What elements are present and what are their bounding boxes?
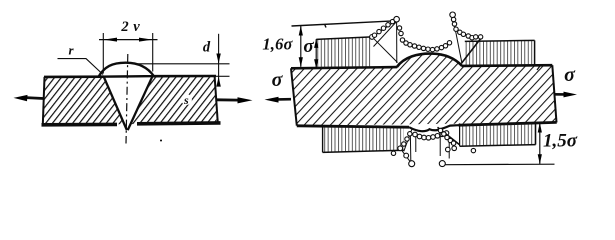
dimension 2v — [99, 33, 158, 74]
dimension d — [134, 34, 230, 87]
plate top edge right — [462, 64, 553, 67]
plate hatched body with cap — [291, 54, 557, 126]
1.5 sigma level line — [445, 163, 554, 166]
dim 1,5 sigma — [538, 123, 542, 165]
bottom-right peak beads — [438, 128, 475, 166]
label s — [181, 93, 192, 107]
svg-text:d: d — [203, 40, 211, 56]
top-right stress peak skeleton — [453, 18, 482, 64]
weld cap dome — [99, 63, 154, 77]
top-right peak beads — [450, 12, 483, 40]
svg-text:s: s — [183, 93, 189, 107]
plate bottom edge left — [297, 126, 409, 127]
svg-text:σ: σ — [564, 64, 576, 86]
svg-text:σ: σ — [303, 36, 314, 57]
bottom-left stress peak skeleton — [400, 129, 416, 164]
top-left peak beads — [370, 16, 400, 39]
label r with leader — [58, 43, 104, 75]
tension arrow right — [217, 97, 253, 103]
weld V groove (white) — [103, 75, 154, 131]
top-right sigma block — [465, 40, 535, 66]
svg-text:2: 2 — [120, 19, 128, 35]
weld V outline left — [104, 76, 127, 130]
speck dots — [160, 140, 162, 142]
root bead row — [413, 131, 449, 140]
beads over cap — [397, 26, 451, 52]
bottom-left peak beads — [391, 132, 414, 167]
top-left stress peak skeleton — [372, 20, 397, 63]
plate bottom edge right — [137, 121, 221, 126]
plate left edge — [291, 68, 297, 125]
svg-text:1,6σ: 1,6σ — [262, 34, 293, 53]
stray tick near right block — [537, 65, 541, 71]
plate top edge left — [44, 75, 104, 78]
dim sigma top — [314, 39, 318, 68]
plate top edge left — [291, 67, 397, 68]
plate top edge right — [152, 75, 216, 78]
bottom-left sigma block — [323, 126, 404, 152]
svg-text:σ: σ — [272, 69, 284, 91]
plate body hatched — [43, 76, 217, 125]
bottom-right sigma block — [460, 123, 536, 146]
stray apostrophe — [325, 24, 327, 28]
svg-text:1,5σ: 1,5σ — [543, 130, 578, 151]
svg-text:v: v — [133, 19, 140, 35]
plate right edge — [215, 76, 218, 123]
sigma arrow left — [265, 69, 292, 103]
plate bottom edge right — [459, 122, 557, 125]
centerline dash-dot — [126, 54, 128, 144]
sigma arrow right — [554, 64, 577, 97]
bottom-right stress peak skeleton — [438, 127, 460, 158]
weld cap top — [397, 54, 462, 68]
tension arrow left — [14, 95, 44, 101]
plate left edge — [43, 77, 45, 125]
plate right edge — [552, 65, 556, 122]
plate bottom edge left — [42, 123, 118, 127]
1.6 sigma level line — [292, 21, 397, 26]
weld V outline right — [128, 76, 153, 130]
dim 1,6 sigma — [299, 26, 303, 67]
top-left sigma block — [316, 37, 372, 68]
root sag wavy edge — [409, 125, 459, 131]
